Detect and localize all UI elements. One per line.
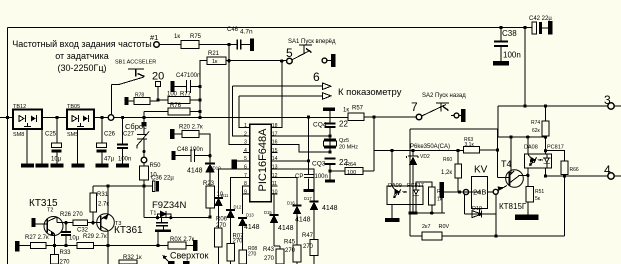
- ground bar R27 left: [15, 241, 20, 252]
- svg-text:270: 270: [248, 252, 257, 258]
- svg-text:KV: KV: [474, 165, 488, 176]
- node junction rail at x200: [198, 116, 201, 119]
- IC U1 PIC16F648A: [250, 124, 272, 202]
- wire pin12 to D16 chain: [278, 178, 298, 206]
- arrow overcurrent: [164, 257, 169, 262]
- svg-text:C32: C32: [77, 228, 89, 234]
- pin numbers right: [272, 123, 278, 195]
- wire term4 node down to bottom rail: [564, 176, 566, 236]
- ground bar R0X: [193, 240, 198, 251]
- svg-text:SA1 Пуск вперёд: SA1 Пуск вперёд: [288, 39, 336, 45]
- node junction T4 collector top: [509, 135, 512, 138]
- wire R31 C36 row: [93, 185, 152, 187]
- ground C25: [51, 164, 64, 168]
- svg-text:3: 3: [244, 140, 247, 146]
- module left edge: [409, 129, 411, 236]
- transistor reset key: [143, 112, 145, 123]
- node junction T3 collector: [106, 244, 109, 247]
- resistor R75: [181, 41, 199, 49]
- svg-text:5к: 5к: [535, 196, 541, 202]
- node junction R31 base T3: [91, 221, 94, 224]
- svg-text:7: 7: [411, 100, 418, 114]
- svg-text:КТ361: КТ361: [114, 225, 143, 236]
- resistor R66: [561, 161, 568, 175]
- svg-text:2к7: 2к7: [422, 224, 431, 230]
- svg-text:6: 6: [313, 70, 320, 84]
- node connector circle on rail: [108, 115, 114, 121]
- svg-text:100n: 100n: [118, 157, 131, 163]
- node connector circle reset: [141, 157, 147, 163]
- node junction C48 right: [208, 154, 211, 157]
- wire #1 to R75: [159, 44, 181, 46]
- svg-text:18: 18: [272, 123, 278, 129]
- node junction T2 emitter: [53, 244, 56, 247]
- wire pin16 to crystal bottom: [278, 144, 331, 152]
- svg-text:C26: C26: [104, 132, 116, 138]
- wire R75 to C46 node: [199, 44, 237, 46]
- svg-text:SM8: SM8: [13, 132, 24, 138]
- wire TB12 to TB05: [42, 117, 67, 119]
- node junction pin14: [307, 159, 310, 162]
- ground C38: [493, 61, 509, 66]
- svg-text:1: 1: [244, 123, 247, 129]
- svg-text:R06: R06: [216, 217, 228, 223]
- svg-text:5: 5: [244, 156, 247, 162]
- node junction reset chain: [142, 116, 145, 119]
- wire pin8 to D13 chain: [242, 186, 245, 214]
- ground bar at pin5-6: [232, 160, 238, 170]
- pin stubs left: [241, 128, 250, 194]
- ground bar R78: [125, 97, 129, 105]
- svg-text:T4: T4: [501, 159, 512, 169]
- svg-text:15: 15: [272, 148, 278, 154]
- svg-text:62к: 62к: [532, 128, 541, 134]
- svg-text:КТ315: КТ315: [29, 198, 58, 209]
- svg-text:R66: R66: [570, 167, 579, 173]
- wire DA09 led bottom to ground: [391, 205, 393, 219]
- svg-text:R0V: R0V: [439, 224, 450, 230]
- wire TB12 pins to ground: [27, 127, 42, 165]
- svg-text:13: 13: [272, 165, 278, 171]
- node junctions module row: [390, 149, 393, 152]
- svg-text:270: 270: [285, 248, 296, 254]
- ground TB12 pin1: [21, 164, 34, 168]
- svg-text:12: 12: [272, 173, 278, 179]
- svg-text:C47100n: C47100n: [176, 73, 200, 79]
- wire terminal3 branch down: [497, 106, 499, 137]
- svg-text:F9Z34N: F9Z34N: [152, 200, 186, 211]
- svg-text:Qz5: Qz5: [339, 138, 349, 144]
- ground bar T2 base: [32, 218, 36, 227]
- wire DA08 right bottom to term4: [545, 168, 547, 176]
- svg-text:47µ: 47µ: [104, 157, 115, 163]
- svg-text:C38: C38: [502, 29, 517, 38]
- wire pin1 net to arrow row2: [239, 96, 243, 128]
- svg-text:4: 4: [244, 148, 247, 154]
- svg-text:R33: R33: [60, 250, 72, 256]
- svg-text:R29 2.7к: R29 2.7к: [83, 234, 107, 240]
- svg-text:270: 270: [264, 256, 275, 262]
- pin stubs right: [271, 128, 278, 194]
- resistor R50: [143, 163, 145, 166]
- svg-text:R51: R51: [535, 189, 544, 195]
- node junction pin14 rail: [307, 115, 310, 118]
- ground bar right of C46: [250, 39, 254, 52]
- node junction C42 branch: [523, 26, 526, 29]
- node junction R74 top: [544, 104, 547, 107]
- node junction C26: [100, 116, 103, 119]
- ground C26: [96, 164, 109, 168]
- svg-text:VD2: VD2: [420, 154, 430, 160]
- svg-text:#1: #1: [150, 33, 158, 42]
- svg-text:T2: T2: [47, 208, 53, 214]
- wire SA1 node down to pin18: [278, 61, 282, 128]
- wire vertical from node #1/R21 down to SA1 row: [229, 45, 243, 145]
- svg-text:1к: 1к: [174, 34, 180, 40]
- node junction R77 right: [198, 98, 201, 101]
- svg-text:R20 2.7к: R20 2.7к: [179, 125, 203, 131]
- node junction crystal bottom: [328, 150, 331, 153]
- svg-text:3.1к: 3.1к: [465, 142, 475, 148]
- svg-text:SA2 Пуск назад: SA2 Пуск назад: [422, 93, 466, 99]
- svg-text:10µ: 10µ: [69, 236, 80, 242]
- node junction R57 right: [372, 115, 375, 118]
- svg-text:R43: R43: [263, 247, 275, 253]
- svg-text:КТ815Г: КТ815Г: [499, 202, 527, 211]
- svg-text:24В: 24В: [473, 188, 486, 197]
- module top wire: [410, 128, 498, 130]
- node junction SB1/R77: [156, 98, 159, 101]
- bottom rail: [410, 235, 565, 237]
- wire DA09 right top to R2: [416, 182, 432, 187]
- svg-text:9: 9: [244, 189, 247, 195]
- frame border left: [7, 28, 9, 264]
- svg-text:C27: C27: [123, 132, 135, 138]
- svg-text:16: 16: [272, 140, 278, 146]
- svg-text:R26 270: R26 270: [60, 212, 83, 218]
- svg-text:4148: 4148: [278, 225, 294, 232]
- capacitor C46 4.7n: [237, 40, 240, 50]
- wire DA08 top row: [498, 136, 546, 138]
- resistor R08 270: [239, 250, 247, 264]
- svg-text:R75: R75: [190, 34, 202, 40]
- svg-text:4148: 4148: [244, 224, 260, 231]
- ground C27: [116, 164, 129, 168]
- svg-text:R27 2.7к: R27 2.7к: [25, 235, 49, 241]
- node junction R26 left C32: [64, 221, 67, 224]
- ground TB12 pin2: [36, 164, 49, 168]
- connector bar KV input: [440, 182, 445, 198]
- svg-text:от задатчика: от задатчика: [55, 51, 109, 61]
- svg-text:D10: D10: [213, 166, 222, 171]
- wire DA09 right bottom: [415, 205, 417, 214]
- svg-text:(30-2250Гц): (30-2250Гц): [57, 63, 106, 73]
- svg-text:T1: T1: [150, 211, 156, 217]
- wire drain row F9Z34N: [144, 217, 210, 219]
- svg-text:100: 100: [347, 170, 356, 176]
- svg-text:CQ3: CQ3: [312, 161, 326, 168]
- node junction drain to R23 chain: [208, 215, 211, 218]
- ground DA09: [385, 218, 400, 222]
- wire pin10 to D15 chain: [274, 194, 278, 215]
- node junction C36: [142, 184, 145, 187]
- svg-text:17: 17: [272, 131, 278, 137]
- wire R21 left down to SB1 net: [200, 61, 207, 118]
- node junction C38 top: [499, 26, 502, 29]
- svg-text:DA08: DA08: [524, 145, 538, 151]
- node junction DA08 led top: [526, 135, 529, 138]
- wire R21 row to SA1: [226, 60, 287, 62]
- ground C42: [548, 21, 553, 35]
- svg-text:R47: R47: [302, 233, 314, 239]
- node junction SA1 branch: [280, 59, 283, 62]
- svg-text:270: 270: [60, 260, 71, 264]
- wire TB05 pin to ground: [76, 129, 78, 165]
- transistor T2 KT315: [44, 217, 63, 236]
- svg-text:R50: R50: [150, 163, 162, 169]
- pin numbers left: [244, 123, 247, 195]
- node junction C27: [121, 116, 124, 119]
- svg-text:R21: R21: [208, 51, 220, 57]
- svg-text:270: 270: [303, 244, 314, 250]
- wire pin13 to D17 chain: [278, 169, 315, 201]
- resistor R2 1k: [429, 187, 436, 205]
- node junction R76 right: [198, 110, 201, 113]
- svg-text:22: 22: [339, 120, 348, 129]
- svg-text:PC817: PC817: [547, 145, 564, 151]
- svg-text:PIC16F648A: PIC16F648A: [257, 128, 269, 192]
- wire bar to KV: [444, 191, 481, 193]
- transistor T3 KT361: [97, 214, 115, 232]
- wire pin7 to D12 chain: [231, 178, 244, 211]
- svg-text:D13: D13: [246, 213, 254, 218]
- svg-text:C48 100n: C48 100n: [177, 147, 203, 153]
- svg-text:2: 2: [244, 131, 247, 137]
- wire SB1 left leg down to rail node: [111, 85, 113, 115]
- node junction C25: [55, 116, 58, 119]
- wire bottom of module column: [410, 212, 445, 214]
- transistor T1 F9Z34N mosfet: [156, 216, 159, 219]
- wire pin17 to crystal top: [278, 135, 331, 137]
- ground bar T4: [515, 215, 539, 221]
- svg-text:100n: 100n: [315, 174, 328, 180]
- crystal Qz5 20MHz: [324, 139, 336, 141]
- svg-text:11: 11: [272, 181, 277, 187]
- node junction R74 bottom: [544, 135, 547, 138]
- wire left edge into TB12: [0, 117, 13, 119]
- svg-text:D12: D12: [234, 205, 242, 210]
- svg-text:SM5: SM5: [67, 132, 78, 138]
- svg-text:1к: 1к: [212, 59, 218, 65]
- node junction on border: [6, 116, 9, 119]
- node junction C47 right: [198, 85, 201, 88]
- svg-text:P6ke350A(CA): P6ke350A(CA): [410, 144, 450, 150]
- svg-text:C25: C25: [45, 132, 57, 138]
- terminal #1: [154, 42, 160, 48]
- node junction v525: [523, 104, 526, 107]
- node junction C32 bottom: [64, 244, 67, 247]
- svg-text:C46: C46: [227, 27, 239, 33]
- wire rail branch to pin14: [308, 117, 310, 175]
- wire R57 node down to module row: [373, 117, 375, 171]
- svg-text:7: 7: [244, 173, 247, 179]
- node junction R21 right: [227, 59, 230, 62]
- svg-text:4148: 4148: [187, 168, 203, 175]
- node junction at C46: [227, 43, 230, 46]
- svg-text:14: 14: [272, 156, 278, 162]
- node junction T3 emitter top: [106, 184, 109, 187]
- resistor R21: [207, 57, 226, 65]
- svg-text:4.7n: 4.7n: [240, 29, 253, 36]
- wire DA08 outputs: [520, 168, 528, 175]
- wire DA08 top to R66: [546, 151, 565, 161]
- node junction crystal top: [328, 134, 331, 137]
- svg-text:8: 8: [244, 181, 247, 187]
- svg-text:20 MHz: 20 MHz: [339, 145, 358, 151]
- wire top supply rail: [8, 27, 533, 29]
- relay right contact: [488, 191, 494, 193]
- label frequency input text: [12, 39, 152, 73]
- svg-text:10µ: 10µ: [51, 157, 62, 163]
- svg-text:R60: R60: [443, 157, 452, 163]
- wire pin2 net to arrow row1: [233, 86, 243, 136]
- wire C42 node down: [524, 28, 526, 107]
- svg-text:Частотный вход задания частоты: Частотный вход задания частоты: [12, 39, 152, 49]
- svg-text:R31: R31: [97, 192, 109, 198]
- wire 5V rail from TB05: [94, 117, 348, 119]
- connector stubs bottom cut: [168, 261, 175, 264]
- svg-text:20: 20: [152, 71, 164, 83]
- wire pin6 to D11 chain: [219, 169, 244, 198]
- svg-text:1,2к: 1,2к: [441, 170, 452, 176]
- svg-text:R74: R74: [531, 120, 540, 126]
- ground TB05: [71, 164, 84, 168]
- node junction T1 source: [156, 244, 159, 247]
- wire base T2: [36, 223, 48, 225]
- capacitor C32 10u: [65, 223, 67, 232]
- svg-text:Сверхток: Сверхток: [170, 251, 209, 261]
- svg-text:100n: 100n: [503, 51, 521, 60]
- svg-text:К показометру: К показометру: [338, 87, 402, 98]
- svg-text:R57: R57: [352, 106, 364, 112]
- svg-text:6: 6: [244, 165, 247, 171]
- ground CP: [304, 189, 315, 192]
- svg-text:4148: 4148: [322, 205, 338, 212]
- svg-text:SB1 ACCSELER: SB1 ACCSELER: [115, 60, 156, 66]
- ground crystal top: [323, 108, 335, 112]
- wire module row: [374, 150, 464, 152]
- svg-text:D17: D17: [304, 196, 312, 201]
